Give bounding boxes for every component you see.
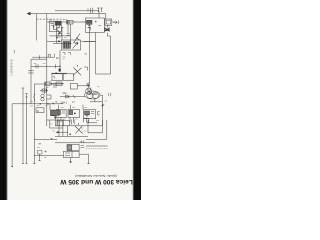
label av [39,143,42,146]
dashed shield line [37,18,65,20]
wire motor to rail [100,95,102,98]
junction blob [58,40,60,42]
loop vertical x95.5 [95,33,97,75]
arrow left [56,131,59,133]
wire drop x62 [61,27,63,40]
module A box [56,109,66,117]
wire right of K3 [79,154,88,164]
corner wire y59 [31,58,47,60]
foot x88.5 [87,163,89,165]
rail x26.5 [26,94,28,164]
box under Q2 right [63,74,74,81]
inner mark [53,77,55,79]
module pin drops [58,118,87,123]
arrowhead [51,138,54,140]
wire drop x105.8 [103,14,105,19]
label 4 [87,9,89,12]
transistor Q3 [75,123,83,134]
small box [70,84,77,89]
terminal drop x70.6 [70,158,72,163]
hatch pair on rail [88,26,91,28]
capacitor C1 [67,34,70,36]
thermal contact (black square) [59,69,61,72]
psu outer box [86,18,105,33]
rail x23 [22,88,24,164]
wire drop x59.5 [59,24,61,28]
rail tick [22,87,24,89]
bus y136.4 [55,135,88,137]
caption main (rotated 180) [59,178,132,185]
wire y84 [34,83,63,85]
transformer T1 box [49,21,61,32]
motor bottom wire [90,99,103,102]
relay K3 box [64,151,80,157]
tick right [85,53,88,55]
resistor R3 [87,20,93,24]
rail x34.3 [33,84,35,164]
motor circle C [92,92,98,98]
relay K1 box [61,40,80,50]
arrow blob [56,72,59,74]
bracket right of motor [108,93,111,96]
resistor R6 [42,89,46,92]
psu inner marks [88,21,102,31]
relay K2 box [67,144,79,151]
motor circle B [87,92,93,98]
wire y128 corner [50,120,63,128]
left rail x12 corner [11,104,13,166]
plus mark [57,27,59,29]
corner mid right [84,67,88,71]
winding bars [56,22,59,26]
label 10A [61,100,68,104]
wire y57 [32,56,54,58]
diode D1 [105,27,109,31]
resistor R8 hatched [51,110,60,116]
rail x60 [59,50,61,72]
loop bottom y74 [96,73,111,75]
small comp [38,151,43,155]
wire to loop [107,33,110,36]
dotted row [86,148,108,150]
wire y41.5 right [81,41,96,43]
node dot [70,43,72,45]
drops [59,126,68,137]
inner bracket [50,24,56,30]
wire y85.8 [77,86,88,88]
junction blob [106,29,109,31]
nested corner 2 [86,120,107,139]
loop vertical x110.5 [110,36,112,74]
plug arrow [113,21,119,24]
diode D3 [66,95,69,98]
rail x89.3 [88,24,90,87]
terminal foot x26.5 [25,163,27,165]
bracket [84,118,89,123]
svg-text:Leica 300 W und 305 W: Leica 300 W und 305 W [59,178,132,185]
component on wire [48,55,50,58]
tick [50,83,52,86]
nested line 3 [86,145,108,147]
nested corner 1 [88,120,102,133]
bracket [47,95,52,99]
transformer winding (dark) [55,22,61,26]
switch S1 bars [91,8,93,13]
down arrow [56,35,58,39]
lamp bus y96.5 [60,96,86,98]
left page-edge black bar [0,0,7,200]
ticks [72,120,75,125]
black square [54,116,56,118]
end hook [54,54,56,58]
wire drop x68 [67,24,69,33]
lamp arrow [56,28,60,34]
wire y35.9 [49,35,70,37]
wire y83.6 [51,82,64,84]
label marks [81,145,85,147]
small box [59,33,62,36]
bus y103.8 [12,103,63,105]
resistor R2 [67,20,74,24]
box under Q2 left [52,74,63,81]
IC box row bus drops [59,105,84,110]
bus y66.3 [31,65,60,67]
bus y125.8 [55,125,102,127]
switch posts TT [97,8,103,12]
ticks below K1 [63,53,71,56]
motor M1 oval [85,91,101,99]
wire y142.8 [55,142,95,144]
terminal foot x12 [11,166,12,167]
transistor Q2 [73,65,82,76]
contact circle a [41,94,44,97]
marks [53,85,57,87]
drop x55.3 [54,118,56,126]
module B box [68,109,80,117]
wire drop x99 [98,11,100,18]
stub y41.5 to loop [84,41,96,43]
contact circle b [41,98,44,101]
rail x31 [30,59,32,104]
shield left edge [36,14,38,41]
connector arc [34,94,35,101]
node dot [39,103,41,105]
svg-text:(Quelle: Seite der Schaltbilde: (Quelle: Seite der Schaltbilder) [75,174,117,178]
svg-text:1-234-5678-90: 1-234-5678-90 [12,58,14,76]
bracket tick [98,112,100,115]
wire y41.5 left [47,41,62,43]
terminal foot x34.3 [33,163,35,165]
svg-text:+5,8: +5,8 [80,140,85,143]
label 5 [56,101,76,104]
main vertical rail x47 [46,14,48,104]
mains lead arrow [27,12,31,16]
tick diag [73,95,75,98]
wire into R8 [49,104,51,110]
node dot [59,66,60,67]
drop x44.5 [44,86,46,95]
wire y90.5 [40,90,48,92]
node dot [47,103,49,105]
transistor Q1 [74,34,81,44]
component bus y22 [47,21,92,23]
contact box b [64,120,70,126]
relay arrow [73,43,79,49]
tick [39,55,41,59]
wire y139.4 [34,138,57,140]
tick on rail [101,104,104,107]
rail x102.5 [102,98,104,126]
wire drop x70.5 [70,24,72,44]
svg-text:24v: 24v [63,91,68,95]
value labels sprinkle [30,20,115,158]
right page-edge black bar [133,0,141,200]
wire mains y10.8 [55,10,99,12]
wire y122.8 [87,122,98,124]
bar soft edges [6,0,9,200]
resistor R5 [56,82,62,86]
wire y43.5 [53,43,71,45]
resistor R4 [45,82,50,86]
bus arrow [52,103,54,104]
tick on bus [36,64,38,68]
lamp label 24v [63,91,68,95]
resistor R7 [36,108,44,113]
rail tick [25,94,27,98]
drop x39.5 [38,154,40,161]
page margin tiny rotated text [12,58,14,76]
relay winding dark [63,42,71,49]
wire y155.3 [34,154,63,156]
svg-text:R: R [37,110,39,113]
page mark [13,50,16,54]
wire y132.2 [58,131,68,133]
link to diode [106,25,108,28]
motor top stubs [88,88,91,91]
capacitor C2 [28,71,34,73]
wire y120 [47,119,64,121]
rail x47 lower [46,104,48,126]
terminal foot x23 [22,163,24,165]
contact box a [57,120,63,126]
wire mains y13.6 [30,13,104,15]
label +5,8 [80,140,85,143]
tick [62,27,64,29]
motor circle A [86,88,92,94]
connector X1 box [105,19,112,25]
label Ein [56,56,59,60]
wire drop x56.5 [56,24,58,44]
tick [55,64,57,68]
arrowhead [87,83,89,85]
module C box [84,110,96,119]
wire y73.2 with arrow [51,72,67,74]
node dot [69,134,71,136]
caption small (rotated 180) [75,174,117,178]
